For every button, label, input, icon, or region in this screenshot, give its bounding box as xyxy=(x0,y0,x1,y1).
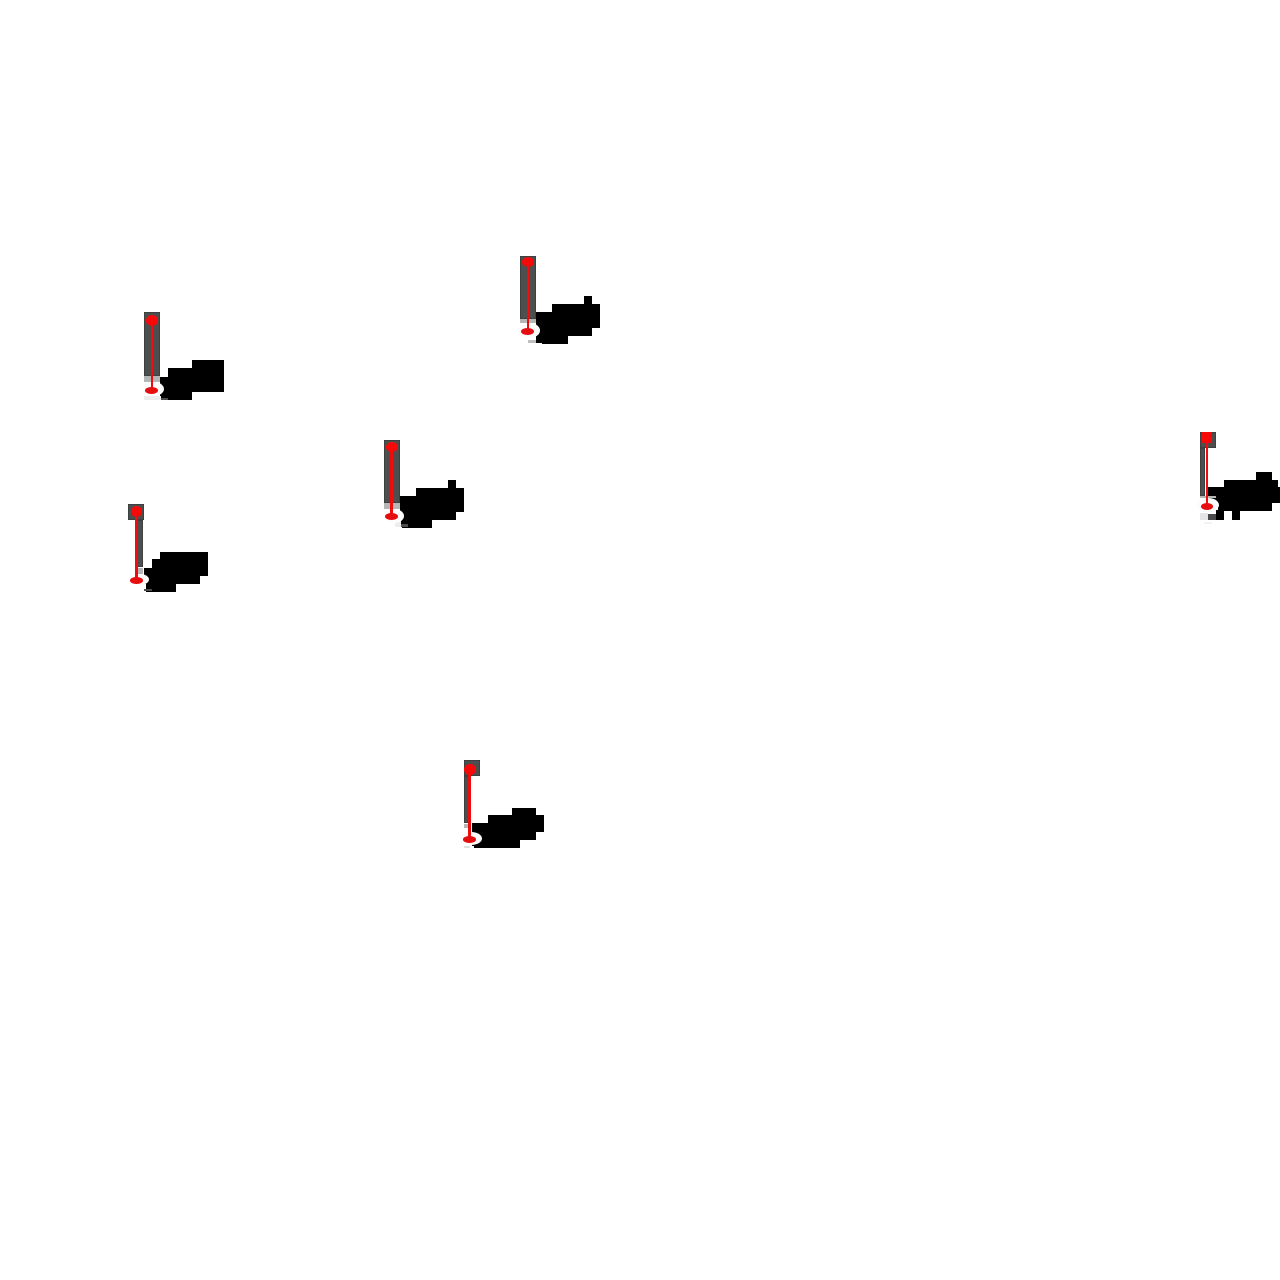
flag thermometer marker 5 bulb xyxy=(1201,503,1213,510)
thermometer marker 1 ground shadow dark xyxy=(161,398,169,400)
station label blob 6 xyxy=(512,808,536,816)
station label blob 5 xyxy=(1256,472,1272,480)
flag thermometer marker 6 ground shadow light xyxy=(464,846,470,848)
thermometer marker 2 ground shadow xyxy=(528,340,536,343)
flag thermometer marker 5 ground shadow light xyxy=(1200,513,1208,520)
flag thermometer marker 5 pole tip xyxy=(1200,496,1216,498)
flag thermometer marker 6 head xyxy=(464,760,480,776)
thermometer marker 2 bulb xyxy=(521,328,534,335)
thermometer marker 3 mercury line xyxy=(390,446,393,518)
thermometer marker 3 top ball xyxy=(386,442,398,453)
thermometer marker 2 top ball xyxy=(522,257,534,268)
flag thermometer marker 4 base white ellipse xyxy=(131,574,150,585)
thermometer marker 3 ground shadow dark xyxy=(401,524,409,527)
thermometer marker 2 tube tip xyxy=(520,319,536,323)
flag thermometer marker 4 mercury line xyxy=(135,512,137,580)
flag thermometer marker 5 base white ellipse xyxy=(1197,498,1219,512)
flag thermometer marker 6 mercury line xyxy=(468,770,470,840)
thermometer marker 2 mercury line xyxy=(527,260,530,333)
flag thermometer marker 5 mercury line xyxy=(1206,442,1208,506)
flag thermometer marker 6 pole xyxy=(464,776,469,824)
thermometer marker 1 base white ellipse xyxy=(143,382,164,396)
station label blob 4 xyxy=(160,552,208,576)
flag thermometer marker 4 ground shadow dark xyxy=(144,589,152,591)
flag thermometer marker 5 head xyxy=(1200,432,1216,448)
flag thermometer marker 5 pole xyxy=(1200,448,1206,497)
station label blob 2 xyxy=(584,296,592,304)
thermometer marker 3 tube tip xyxy=(384,503,400,509)
thermometer marker 3 ground shadow light xyxy=(395,520,401,527)
thermometer marker 2 tube xyxy=(520,256,536,319)
thermometer marker 1 mercury line xyxy=(151,318,154,391)
flag thermometer marker 5 ground shadow faint xyxy=(1204,522,1212,524)
flag thermometer marker 4 bulb xyxy=(130,577,143,584)
thermometer marker 1 tube tip xyxy=(144,376,160,383)
flag thermometer marker 4 head xyxy=(128,504,144,519)
flag thermometer marker 4 top ball xyxy=(131,506,143,517)
flag thermometer marker 6 bulb xyxy=(463,836,476,843)
thermometer marker 1 bulb xyxy=(145,387,158,394)
flag thermometer marker 4 pole tip xyxy=(138,568,143,574)
thermometer marker 2 base white ellipse xyxy=(518,323,540,337)
flag thermometer marker 6 pole tip xyxy=(464,824,470,829)
thermometer marker 1 top ball xyxy=(146,315,158,326)
flag thermometer marker 6 top ball xyxy=(464,764,476,775)
thermometer marker 1 tube xyxy=(144,312,160,376)
thermometer marker 3 tube xyxy=(384,440,400,503)
flag thermometer marker 5 top square xyxy=(1202,432,1212,443)
flag thermometer marker 5 ground shadow dark xyxy=(1208,514,1215,520)
station label blob 1 xyxy=(192,360,224,392)
station label blob 3 xyxy=(448,480,456,488)
thermometer marker 3 bulb xyxy=(385,513,398,520)
thermometer marker 1 ground shadow light xyxy=(144,396,161,399)
flag thermometer marker 4 pole xyxy=(137,520,143,567)
flag thermometer marker 6 base white ellipse xyxy=(460,832,482,845)
thermometer marker 3 base white ellipse xyxy=(384,509,405,523)
